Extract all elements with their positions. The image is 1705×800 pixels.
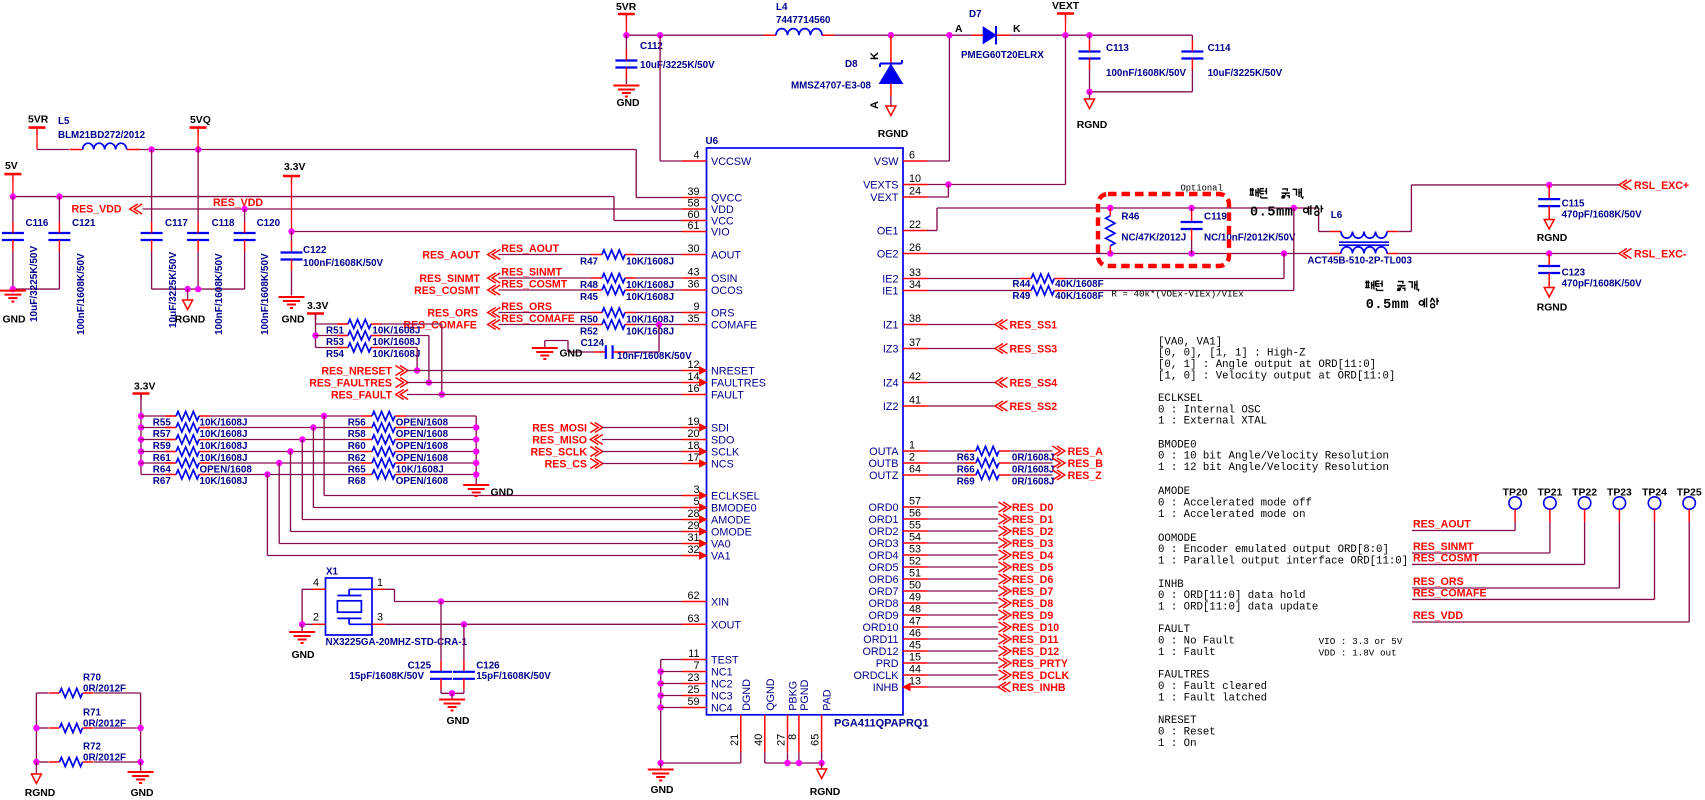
svg-text:K: K [1013, 24, 1021, 35]
svg-text:BLM21BD272/2012: BLM21BD272/2012 [58, 130, 146, 141]
svg-text:IZ3: IZ3 [883, 344, 899, 356]
svg-text:RES_B: RES_B [1068, 458, 1104, 470]
svg-text:23: 23 [687, 672, 699, 684]
svg-text:15pF/1608K/50V: 15pF/1608K/50V [476, 671, 551, 682]
svg-text:29: 29 [687, 520, 699, 532]
svg-text:40K/1608F: 40K/1608F [1055, 279, 1103, 290]
svg-text:27: 27 [776, 734, 788, 746]
svg-text:ORD12: ORD12 [862, 646, 898, 658]
svg-text:XIN: XIN [711, 597, 729, 609]
svg-text:NC3: NC3 [711, 691, 733, 703]
svg-text:NC1: NC1 [711, 667, 733, 679]
svg-text:0.5mm: 0.5mm [1250, 206, 1294, 221]
svg-text:0.5mm: 0.5mm [1366, 298, 1410, 313]
svg-text:C120: C120 [257, 218, 281, 229]
svg-text:ORD4: ORD4 [869, 550, 899, 562]
svg-text:10K/1608J: 10K/1608J [200, 441, 248, 452]
svg-text:15: 15 [909, 652, 921, 664]
svg-text:PRD: PRD [876, 658, 899, 670]
svg-text:10: 10 [909, 173, 921, 185]
svg-text:470pF/1608K/50V: 470pF/1608K/50V [1562, 279, 1643, 290]
svg-text:53: 53 [909, 544, 921, 556]
svg-text:RES_MOSI: RES_MOSI [532, 423, 587, 435]
svg-text:VDD : 1.8V out: VDD : 1.8V out [1319, 648, 1397, 659]
svg-text:NRESET: NRESET [711, 366, 755, 378]
svg-text:U6: U6 [706, 136, 719, 147]
svg-text:15pF/1608K/50V: 15pF/1608K/50V [349, 671, 424, 682]
svg-text:OE2: OE2 [877, 249, 899, 261]
svg-text:VEXT: VEXT [870, 192, 899, 204]
svg-text:IZ1: IZ1 [883, 320, 899, 332]
svg-text:BMODE0: BMODE0 [711, 503, 757, 515]
svg-text:C116: C116 [26, 218, 49, 229]
svg-text:SDI: SDI [711, 423, 729, 435]
svg-text:FAULT: FAULT [1158, 624, 1191, 636]
svg-text:VIO : 3.3 or 5V: VIO : 3.3 or 5V [1319, 636, 1403, 647]
svg-text:C126: C126 [476, 661, 500, 672]
svg-text:K: K [869, 52, 881, 60]
svg-text:RGND: RGND [1077, 120, 1108, 131]
svg-text:5: 5 [693, 496, 699, 508]
svg-text:OOMODE: OOMODE [1158, 533, 1196, 545]
svg-text:OMODE: OMODE [711, 527, 752, 539]
svg-text:BMODE0: BMODE0 [1158, 439, 1196, 451]
svg-text:3.3V: 3.3V [134, 382, 155, 393]
svg-text:OUTA: OUTA [869, 446, 899, 458]
svg-text:9: 9 [693, 301, 699, 313]
svg-text:0 : ORD[11:0] data hold: 0 : ORD[11:0] data hold [1158, 590, 1306, 602]
svg-text:16: 16 [687, 383, 699, 395]
svg-text:24: 24 [909, 186, 921, 198]
svg-text:ORD5: ORD5 [869, 562, 899, 574]
svg-text:28: 28 [687, 508, 699, 520]
svg-text:RES_COSMT: RES_COSMT [1413, 552, 1479, 564]
svg-text:OSIN: OSIN [711, 273, 737, 285]
svg-text:RES_ORS: RES_ORS [501, 301, 552, 313]
svg-text:C119: C119 [1204, 212, 1227, 223]
svg-text:59: 59 [687, 696, 699, 708]
svg-text:RGND: RGND [878, 129, 909, 140]
svg-text:39: 39 [687, 186, 699, 198]
svg-text:PBKG: PBKG [788, 681, 800, 711]
svg-text:1 : Parallel output interface: 1 : Parallel output interface ORD[11:0] [1158, 555, 1408, 567]
svg-text:ACT45B-510-2P-TL003: ACT45B-510-2P-TL003 [1307, 256, 1412, 267]
svg-text:1 : Fault latched: 1 : Fault latched [1158, 692, 1267, 704]
svg-text:GND: GND [559, 349, 583, 360]
svg-text:47: 47 [909, 616, 921, 628]
svg-text:R47: R47 [580, 257, 599, 268]
svg-text:58: 58 [687, 198, 699, 210]
svg-text:FAULTRES: FAULTRES [1158, 670, 1209, 682]
svg-text:R67: R67 [153, 476, 172, 487]
svg-text:ORD3: ORD3 [869, 538, 899, 550]
svg-text:RES_SINMT: RES_SINMT [419, 273, 480, 285]
svg-text:[VA0, VA1]: [VA0, VA1] [1158, 336, 1222, 348]
svg-text:DGND: DGND [741, 679, 753, 711]
svg-text:56: 56 [909, 508, 921, 520]
svg-text:5VQ: 5VQ [190, 115, 211, 126]
svg-text:INHB: INHB [1158, 579, 1184, 591]
svg-text:0 : Fault cleared: 0 : Fault cleared [1158, 681, 1267, 693]
svg-text:Optional: Optional [1181, 184, 1223, 194]
svg-text:GND: GND [130, 788, 154, 799]
svg-text:R71: R71 [83, 707, 102, 718]
svg-text:43: 43 [687, 267, 699, 279]
svg-text:IZ2: IZ2 [883, 401, 899, 413]
svg-text:SDO: SDO [711, 435, 734, 447]
svg-text:36: 36 [687, 279, 699, 291]
svg-text:RES_FAULTRES: RES_FAULTRES [309, 378, 392, 390]
svg-text:VEXTS: VEXTS [863, 180, 898, 192]
svg-text:7447714560: 7447714560 [776, 15, 831, 26]
svg-text:C115: C115 [1562, 199, 1585, 210]
svg-text:54: 54 [909, 532, 921, 544]
svg-text:RES_VDD: RES_VDD [213, 197, 263, 209]
svg-text:17: 17 [687, 452, 699, 464]
svg-text:L5: L5 [58, 116, 70, 127]
svg-text:4: 4 [693, 150, 699, 162]
svg-text:GND: GND [491, 488, 515, 499]
svg-text:45: 45 [909, 640, 921, 652]
svg-text:FAULT: FAULT [711, 390, 744, 402]
svg-text:C113: C113 [1106, 43, 1129, 54]
svg-text:RES_VDD: RES_VDD [1413, 610, 1463, 622]
svg-text:C118: C118 [212, 218, 235, 229]
svg-text:NX3225GA-20MHZ-STD-CRA-1: NX3225GA-20MHZ-STD-CRA-1 [326, 637, 468, 648]
svg-text:RES_D9: RES_D9 [1012, 610, 1053, 622]
svg-text:2: 2 [909, 452, 915, 464]
svg-text:26: 26 [909, 242, 921, 254]
svg-text:32: 32 [687, 544, 699, 556]
svg-text:3: 3 [377, 612, 383, 624]
svg-text:RES_D0: RES_D0 [1012, 502, 1053, 514]
svg-text:INHB: INHB [873, 682, 899, 694]
svg-text:100nF/1608K/50V: 100nF/1608K/50V [303, 258, 384, 269]
svg-text:R66: R66 [957, 464, 976, 475]
svg-text:RES_SS2: RES_SS2 [1010, 401, 1058, 413]
svg-text:SCLK: SCLK [711, 447, 740, 459]
svg-text:X1: X1 [326, 567, 339, 578]
svg-text:52: 52 [909, 556, 921, 568]
svg-text:RGND: RGND [1537, 303, 1568, 314]
svg-text:RES_COMAFE: RES_COMAFE [501, 313, 575, 325]
svg-text:3.3V: 3.3V [284, 162, 305, 173]
svg-text:ORD1: ORD1 [869, 514, 899, 526]
svg-text:34: 34 [909, 279, 921, 291]
svg-text:10K/1608J: 10K/1608J [372, 337, 420, 348]
svg-text:VEXT: VEXT [1052, 1, 1080, 12]
svg-text:R = 40k*(VOEx-VIEx)/VIEx: R = 40k*(VOEx-VIEx)/VIEx [1111, 289, 1244, 300]
svg-text:VA1: VA1 [711, 551, 731, 563]
svg-text:0 : Accelerated mode off: 0 : Accelerated mode off [1158, 498, 1312, 510]
svg-text:49: 49 [909, 592, 921, 604]
svg-text:GND: GND [291, 650, 315, 661]
svg-text:FAULTRES: FAULTRES [711, 378, 766, 390]
svg-text:RES_ORS: RES_ORS [1413, 576, 1464, 588]
svg-text:R54: R54 [326, 349, 345, 360]
svg-text:18: 18 [687, 440, 699, 452]
svg-text:C123: C123 [1562, 268, 1586, 279]
svg-text:470pF/1608K/50V: 470pF/1608K/50V [1562, 210, 1643, 221]
svg-text:ORD2: ORD2 [869, 526, 899, 538]
svg-text:OCOS: OCOS [711, 285, 743, 297]
svg-text:NC2: NC2 [711, 679, 733, 691]
svg-text:RES_SINMT: RES_SINMT [501, 267, 562, 279]
svg-text:OE1: OE1 [877, 226, 899, 238]
svg-text:OUTZ: OUTZ [869, 470, 899, 482]
svg-text:R57: R57 [153, 429, 172, 440]
svg-text:R68: R68 [348, 476, 367, 487]
svg-text:50: 50 [909, 580, 921, 592]
svg-text:1 : External XTAL: 1 : External XTAL [1158, 416, 1267, 428]
svg-text:R70: R70 [83, 672, 102, 683]
svg-text:RES_PRTY: RES_PRTY [1012, 658, 1068, 670]
svg-text:[0, 1] : Angle output at ORD[1: [0, 1] : Angle output at ORD[11:0] [1158, 359, 1376, 371]
svg-text:RES_COMAFE: RES_COMAFE [1413, 587, 1487, 599]
svg-text:0R/2012F: 0R/2012F [83, 752, 126, 763]
svg-text:VDD: VDD [711, 204, 734, 216]
svg-text:C114: C114 [1208, 43, 1231, 54]
svg-text:ORD11: ORD11 [863, 634, 898, 646]
svg-text:VA0: VA0 [711, 539, 731, 551]
svg-text:0 : 10 bit Angle/Velocity Reso: 0 : 10 bit Angle/Velocity Resolution [1158, 451, 1389, 463]
svg-text:COMAFE: COMAFE [711, 320, 757, 332]
svg-text:0R/1608J: 0R/1608J [1012, 476, 1055, 487]
svg-text:5VR: 5VR [616, 2, 637, 13]
svg-text:11: 11 [688, 648, 699, 660]
svg-text:C122: C122 [303, 245, 327, 256]
svg-text:R44: R44 [1012, 279, 1031, 290]
svg-text:L4: L4 [776, 2, 788, 13]
svg-text:1 : Accelerated mode on: 1 : Accelerated mode on [1158, 509, 1306, 521]
svg-text:1 : ORD[11:0] data update: 1 : ORD[11:0] data update [1158, 601, 1318, 613]
svg-text:100nF/1608K/50V: 100nF/1608K/50V [214, 253, 225, 335]
svg-text:[0, 0], [1, 1] : High-Z: [0, 0], [1, 1] : High-Z [1158, 348, 1306, 360]
svg-text:13: 13 [909, 676, 921, 688]
svg-text:RES_DCLK: RES_DCLK [1012, 670, 1069, 682]
svg-text:0 : Reset: 0 : Reset [1158, 727, 1216, 739]
svg-text:R53: R53 [326, 337, 345, 348]
svg-text:RSL_EXC+: RSL_EXC+ [1634, 180, 1689, 192]
svg-text:3.3V: 3.3V [307, 301, 328, 312]
svg-text:VCCSW: VCCSW [711, 156, 752, 168]
svg-text:RES_MISO: RES_MISO [532, 435, 587, 447]
svg-text:63: 63 [687, 613, 699, 625]
svg-text:10uF/3225K/50V: 10uF/3225K/50V [1208, 68, 1283, 79]
svg-text:RES_Z: RES_Z [1068, 470, 1103, 482]
svg-text:C125: C125 [408, 661, 432, 672]
svg-text:10K/1608J: 10K/1608J [200, 429, 248, 440]
svg-text:RES_D12: RES_D12 [1012, 646, 1059, 658]
svg-text:100nF/1608K/50V: 100nF/1608K/50V [1106, 68, 1187, 79]
svg-text:C124: C124 [581, 338, 605, 349]
svg-text:37: 37 [909, 337, 921, 349]
svg-text:A: A [869, 101, 881, 109]
svg-text:PAD: PAD [822, 689, 834, 711]
svg-text:RGND: RGND [810, 787, 841, 798]
svg-text:33: 33 [909, 267, 921, 279]
svg-text:RES_D7: RES_D7 [1012, 586, 1053, 598]
svg-text:OPEN/1608: OPEN/1608 [396, 441, 449, 452]
svg-text:RES_CS: RES_CS [545, 459, 587, 471]
svg-text:RES_D2: RES_D2 [1012, 526, 1053, 538]
svg-text:35: 35 [687, 313, 699, 325]
svg-text:RES_D10: RES_D10 [1012, 622, 1059, 634]
svg-text:R45: R45 [580, 292, 599, 303]
svg-text:VSW: VSW [874, 156, 899, 168]
svg-text:RES_COSMT: RES_COSMT [414, 285, 480, 297]
svg-text:10nF/1608K/50V: 10nF/1608K/50V [617, 351, 692, 362]
svg-text:ORD8: ORD8 [869, 598, 899, 610]
svg-text:0R/1608J: 0R/1608J [1012, 464, 1055, 475]
svg-text:65: 65 [810, 734, 822, 746]
svg-text:MMSZ4707-E3-08: MMSZ4707-E3-08 [791, 81, 872, 92]
svg-text:44: 44 [909, 664, 921, 676]
svg-text:51: 51 [909, 568, 921, 580]
svg-text:PMEG60T20ELRX: PMEG60T20ELRX [961, 50, 1044, 61]
svg-text:6: 6 [909, 150, 915, 162]
svg-text:GND: GND [616, 98, 640, 109]
svg-text:R49: R49 [1012, 291, 1031, 302]
svg-text:19: 19 [687, 416, 699, 428]
svg-text:25: 25 [687, 684, 699, 696]
svg-text:RGND: RGND [175, 315, 206, 326]
svg-text:RES_D6: RES_D6 [1012, 574, 1053, 586]
svg-text:RES_ORS: RES_ORS [427, 308, 478, 320]
svg-text:38: 38 [909, 313, 921, 325]
svg-text:3: 3 [693, 484, 699, 496]
svg-text:NC/47K/2012J: NC/47K/2012J [1121, 233, 1186, 244]
svg-text:RES_D4: RES_D4 [1012, 550, 1053, 562]
svg-text:VIO: VIO [711, 227, 730, 239]
svg-text:20: 20 [687, 428, 699, 440]
svg-text:1: 1 [377, 577, 383, 589]
svg-text:RES_D3: RES_D3 [1012, 538, 1053, 550]
svg-text:ORD9: ORD9 [869, 610, 899, 622]
svg-text:1 : On: 1 : On [1158, 738, 1196, 750]
svg-text:RES_FAULT: RES_FAULT [331, 390, 393, 402]
svg-text:NC/10nF/2012K/50V: NC/10nF/2012K/50V [1204, 233, 1296, 244]
svg-text:IZ4: IZ4 [883, 378, 899, 390]
svg-text:GND: GND [2, 315, 26, 326]
svg-text:10K/1608J: 10K/1608J [626, 292, 674, 303]
svg-text:ORDCLK: ORDCLK [854, 670, 900, 682]
svg-text:1 : Fault: 1 : Fault [1158, 647, 1216, 659]
svg-text:22: 22 [909, 219, 921, 231]
svg-text:48: 48 [909, 604, 921, 616]
svg-text:21: 21 [729, 734, 741, 746]
svg-text:41: 41 [909, 395, 921, 407]
svg-text:55: 55 [909, 520, 921, 532]
svg-text:RSL_EXC-: RSL_EXC- [1634, 249, 1687, 261]
svg-text:ORD6: ORD6 [869, 574, 899, 586]
svg-text:31: 31 [687, 532, 699, 544]
svg-text:AMODE: AMODE [711, 515, 751, 527]
svg-text:0 : No Fault: 0 : No Fault [1158, 636, 1235, 648]
svg-text:RES_D5: RES_D5 [1012, 562, 1053, 574]
svg-text:C117: C117 [165, 218, 188, 229]
svg-text:RES_AOUT: RES_AOUT [422, 250, 480, 262]
svg-text:NCS: NCS [711, 459, 734, 471]
svg-text:RES_D1: RES_D1 [1012, 514, 1053, 526]
svg-text:OPEN/1608: OPEN/1608 [396, 429, 449, 440]
svg-text:R60: R60 [348, 441, 367, 452]
svg-text:1 : 12 bit Angle/Velocity Reso: 1 : 12 bit Angle/Velocity Resolution [1158, 462, 1389, 474]
svg-text:GND: GND [650, 785, 674, 796]
svg-text:A: A [955, 24, 963, 35]
svg-text:100nF/1608K/50V: 100nF/1608K/50V [76, 253, 87, 335]
svg-text:L6: L6 [1331, 210, 1343, 221]
svg-text:10K/1608J: 10K/1608J [626, 327, 674, 338]
svg-text:8: 8 [787, 734, 799, 740]
svg-text:ORD7: ORD7 [869, 586, 899, 598]
svg-text:10K/1608J: 10K/1608J [372, 349, 420, 360]
svg-text:NRESET: NRESET [1158, 715, 1197, 727]
svg-text:10uF/3225K/50V: 10uF/3225K/50V [168, 252, 179, 328]
svg-text:GND: GND [446, 716, 470, 727]
svg-text:R58: R58 [348, 429, 367, 440]
svg-text:RES_SINMT: RES_SINMT [1413, 541, 1474, 553]
svg-text:R72: R72 [83, 741, 102, 752]
svg-text:5V: 5V [5, 161, 18, 172]
svg-text:100nF/1608K/50V: 100nF/1608K/50V [260, 253, 271, 335]
svg-text:RES_A: RES_A [1068, 446, 1104, 458]
svg-text:5VR: 5VR [28, 115, 49, 126]
svg-text:RES_SCLK: RES_SCLK [530, 447, 587, 459]
svg-text:4: 4 [313, 577, 319, 589]
svg-text:PGA411QPAPRQ1: PGA411QPAPRQ1 [834, 718, 929, 730]
svg-text:R46: R46 [1121, 212, 1140, 223]
svg-text:57: 57 [909, 496, 921, 508]
svg-text:C121: C121 [72, 218, 96, 229]
svg-text:TEST: TEST [711, 655, 739, 667]
svg-text:14: 14 [687, 371, 699, 383]
svg-text:RES_COSMT: RES_COSMT [501, 279, 567, 291]
svg-text:61: 61 [687, 220, 699, 232]
svg-text:AMODE: AMODE [1158, 486, 1190, 498]
svg-text:GND: GND [281, 315, 305, 326]
svg-text:7: 7 [693, 660, 699, 672]
svg-text:OPEN/1608: OPEN/1608 [396, 476, 449, 487]
svg-text:0R/2012F: 0R/2012F [83, 718, 126, 729]
svg-text:AOUT: AOUT [711, 250, 741, 262]
svg-text:0 : Encoder emulated output OR: 0 : Encoder emulated output ORD[8:0] [1158, 544, 1389, 556]
svg-text:RES_NRESET: RES_NRESET [321, 366, 392, 378]
svg-text:2: 2 [313, 612, 319, 624]
svg-text:R59: R59 [153, 441, 172, 452]
svg-text:ECLKSEL: ECLKSEL [711, 491, 760, 503]
svg-text:RES_SS4: RES_SS4 [1010, 378, 1058, 390]
svg-text:64: 64 [909, 464, 921, 476]
svg-text:IE1: IE1 [882, 286, 898, 298]
svg-text:40: 40 [753, 734, 765, 746]
svg-text:30: 30 [687, 243, 699, 255]
svg-text:OUTB: OUTB [869, 458, 899, 470]
svg-text:0 : Internal OSC: 0 : Internal OSC [1158, 404, 1261, 416]
svg-text:ECLKSEL: ECLKSEL [1158, 393, 1203, 405]
svg-text:NC4: NC4 [711, 703, 733, 715]
svg-text:RES_SS1: RES_SS1 [1010, 320, 1058, 332]
svg-text:0R/1608J: 0R/1608J [1012, 452, 1055, 463]
svg-text:R52: R52 [580, 327, 599, 338]
svg-text:QVCC: QVCC [711, 193, 742, 205]
svg-text:R63: R63 [957, 452, 976, 463]
svg-text:46: 46 [909, 628, 921, 640]
svg-text:10K/1608J: 10K/1608J [200, 476, 248, 487]
svg-text:RES_VDD: RES_VDD [71, 204, 121, 216]
svg-text:0R/2012F: 0R/2012F [83, 683, 126, 694]
svg-text:RGND: RGND [25, 788, 56, 799]
